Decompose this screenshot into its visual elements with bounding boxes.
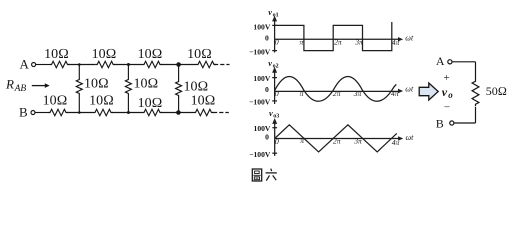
svg-text:2π: 2π	[333, 136, 341, 145]
svg-text:0: 0	[265, 33, 269, 42]
wire rung3 lower stub	[178, 97, 180, 113]
junction node5 bottom	[127, 111, 130, 114]
tick +100V plot1	[272, 24, 277, 26]
svg-text:o3: o3	[273, 113, 279, 119]
tick -100V plot3	[272, 152, 277, 154]
wire R7 to node6 to R8	[161, 112, 194, 114]
x tick labels plot3	[275, 136, 399, 147]
resistor R3 top 10ohm	[142, 61, 162, 67]
svg-text:3π: 3π	[353, 89, 362, 98]
svg-text:4π: 4π	[391, 89, 399, 98]
label vo2	[268, 58, 278, 70]
x-axis plot1	[275, 38, 400, 40]
svg-text:50Ω: 50Ω	[486, 84, 507, 98]
x-axis plot2	[275, 90, 400, 92]
wire R2 to node2 to R3	[114, 64, 142, 66]
wire A to R1	[36, 64, 50, 66]
terminal A (ladder, open circle)	[32, 63, 36, 67]
wire R5 to node4 to R6	[67, 112, 93, 114]
hollow arrow pointing to load	[419, 83, 438, 100]
wire rung3 upper stub	[178, 65, 180, 81]
svg-text:0: 0	[275, 89, 279, 98]
resistor R8 bottom 10ohm	[194, 109, 214, 115]
svg-text:ωt: ωt	[405, 34, 414, 43]
label RAB equivalent resistance	[5, 77, 26, 95]
label vo output voltage	[442, 85, 454, 100]
svg-text:−100V: −100V	[249, 150, 271, 159]
svg-text:v: v	[442, 85, 448, 99]
svg-text:o1: o1	[273, 12, 279, 18]
svg-text:10Ω: 10Ω	[184, 80, 209, 95]
resistor R2 top 10ohm	[95, 61, 115, 67]
svg-text:ωt: ωt	[405, 84, 414, 93]
svg-text:B: B	[19, 104, 28, 119]
svg-text:100V: 100V	[253, 74, 270, 83]
terminal A (load, open circle)	[448, 60, 452, 64]
wire down to RL	[475, 62, 477, 79]
svg-text:−100V: −100V	[249, 47, 271, 56]
wire rung1 upper stub	[78, 65, 80, 79]
wire rung2 lower stub	[127, 95, 129, 113]
svg-text:4π: 4π	[392, 38, 400, 47]
square wave vo1 trace	[275, 22, 392, 51]
svg-text:10Ω: 10Ω	[43, 94, 68, 109]
svg-text:+: +	[443, 72, 449, 84]
svg-text:4π: 4π	[392, 138, 400, 147]
svg-text:−: −	[444, 101, 450, 113]
svg-text:0: 0	[265, 85, 269, 94]
svg-text:π: π	[299, 38, 303, 47]
resistor R7 bottom 10ohm	[142, 109, 162, 115]
resistor R9 vertical 10ohm	[76, 78, 82, 95]
resistor R10 vertical 10ohm	[125, 78, 131, 95]
tick -100V plot1	[272, 50, 277, 52]
wire rung1 lower stub	[78, 95, 80, 113]
svg-text:π: π	[300, 89, 304, 98]
tick -100V plot2	[272, 100, 277, 102]
caption character TU (figure)	[252, 169, 261, 181]
svg-text:ωt: ωt	[406, 133, 415, 142]
resistor RL 50ohm	[472, 79, 479, 106]
svg-text:−100V: −100V	[249, 98, 271, 107]
svg-text:10Ω: 10Ω	[191, 94, 216, 109]
y-axis plot3	[274, 121, 276, 156]
x tick labels plot1	[275, 38, 400, 47]
tick +100V plot2	[272, 77, 277, 79]
wire rung2 upper stub	[127, 65, 129, 79]
svg-text:10Ω: 10Ω	[44, 47, 69, 62]
svg-text:0: 0	[275, 137, 279, 146]
y-axis plot1	[274, 19, 276, 53]
triangle wave vo3 trace	[275, 125, 397, 152]
label vo3	[269, 108, 279, 120]
terminal B (ladder, open circle)	[31, 111, 35, 115]
svg-text:B: B	[436, 116, 444, 130]
caption character LIU (six)	[266, 169, 277, 181]
resistor R5 bottom 10ohm	[48, 109, 68, 115]
terminal B (load, open circle)	[450, 121, 454, 125]
tick +100V plot3	[272, 127, 277, 129]
svg-text:10Ω: 10Ω	[187, 47, 212, 62]
junction node2 top	[127, 63, 130, 66]
svg-text:0: 0	[265, 133, 269, 142]
junction node4 bottom	[78, 111, 81, 114]
svg-text:A: A	[436, 54, 445, 68]
svg-text:3π: 3π	[353, 136, 362, 145]
wire B to R5	[35, 112, 48, 114]
svg-text:10Ω: 10Ω	[138, 47, 163, 62]
junction node6 bottom	[176, 110, 181, 115]
arrow RAB pointing right	[32, 85, 46, 87]
wire A to top right corner	[453, 61, 476, 63]
junction node1 top	[78, 63, 81, 66]
svg-text:10Ω: 10Ω	[134, 77, 159, 92]
svg-text:π: π	[300, 136, 304, 145]
svg-text:0: 0	[275, 38, 279, 47]
junction node3 top	[176, 62, 181, 67]
x-axis plot3	[275, 138, 400, 140]
resistor R6 bottom 10ohm	[93, 109, 113, 115]
wire R1 to node1 to R2	[69, 64, 96, 66]
svg-text:2π: 2π	[334, 38, 342, 47]
sine wave vo2 trace	[275, 77, 397, 102]
resistor R11 vertical 10ohm	[176, 80, 182, 97]
svg-text:2π: 2π	[333, 89, 341, 98]
wire top dashed continuation	[214, 64, 230, 66]
svg-text:100V: 100V	[253, 23, 270, 32]
x tick labels plot2	[275, 89, 399, 98]
wire R6 to node5 to R7	[112, 112, 142, 114]
svg-text:10Ω: 10Ω	[92, 47, 117, 62]
wire bottom dashed continuation	[213, 112, 229, 114]
label vo1	[268, 7, 278, 19]
svg-text:10Ω: 10Ω	[138, 96, 163, 111]
wire RL to bottom corner	[475, 107, 477, 123]
svg-text:o2: o2	[273, 64, 279, 70]
wire bottom corner to B	[454, 122, 475, 124]
resistor R1 top 10ohm	[50, 61, 70, 67]
svg-text:10Ω: 10Ω	[84, 77, 109, 92]
svg-text:AB: AB	[14, 84, 27, 94]
svg-text:10Ω: 10Ω	[89, 94, 114, 109]
svg-text:A: A	[20, 56, 30, 71]
svg-text:3π: 3π	[354, 38, 363, 47]
wire R3 to node3 to R4	[161, 64, 196, 66]
svg-text:R: R	[5, 77, 14, 92]
svg-text:o: o	[448, 90, 453, 100]
y-axis plot2	[274, 70, 276, 104]
resistor R4 top 10ohm	[196, 61, 216, 67]
